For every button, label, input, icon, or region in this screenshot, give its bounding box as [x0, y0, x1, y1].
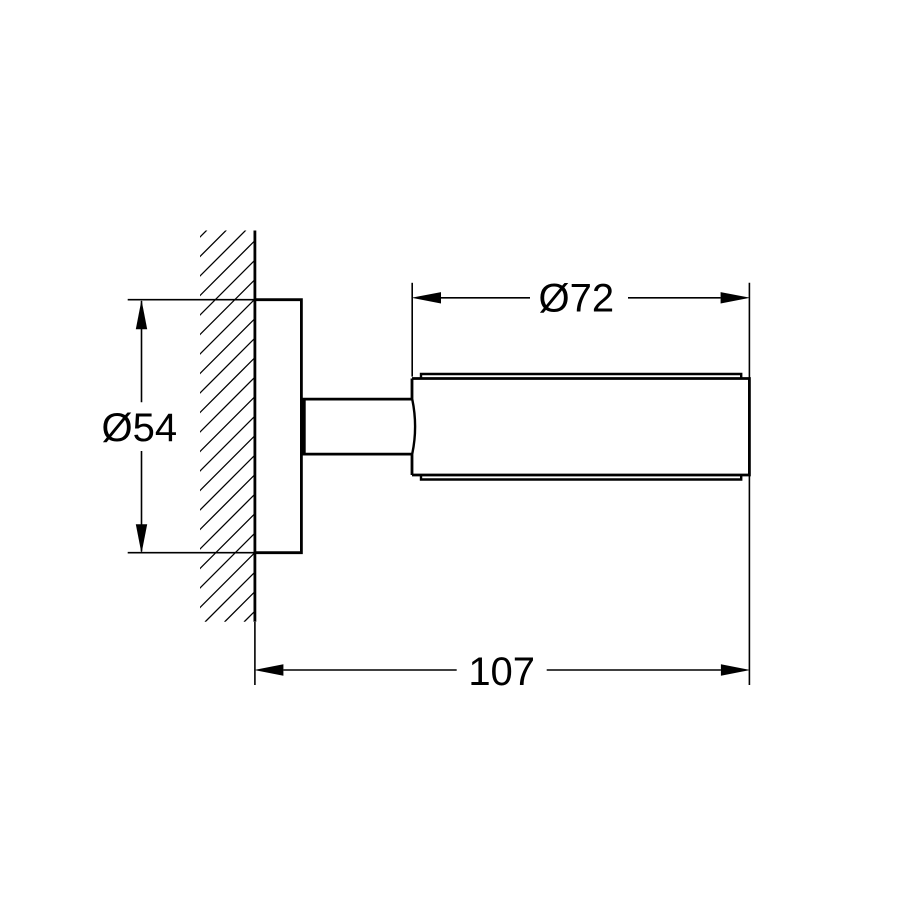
- svg-text:Ø54: Ø54: [101, 406, 177, 450]
- svg-text:Ø72: Ø72: [538, 277, 614, 321]
- svg-text:107: 107: [468, 650, 535, 694]
